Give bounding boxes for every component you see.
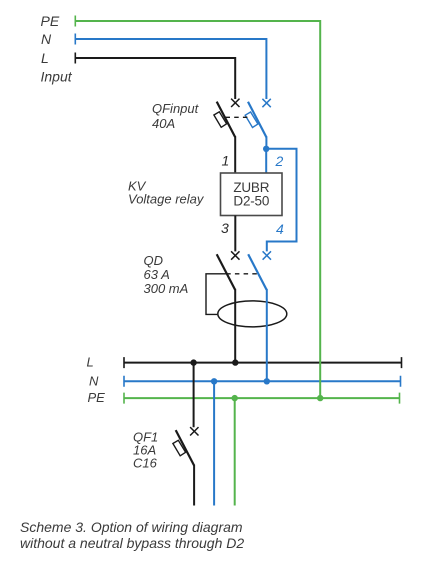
node N bus / QD (264, 378, 270, 384)
node PE bus / input rail (317, 395, 323, 401)
node L bus / QD (232, 359, 238, 365)
RCD QD pole N (248, 251, 271, 289)
wire QD pole N down to N bus (266, 289, 268, 381)
svg-text:C16: C16 (133, 456, 158, 471)
svg-text:N: N (41, 31, 52, 47)
svg-text:QD: QD (144, 253, 164, 268)
bus PE (124, 393, 400, 404)
svg-text:L: L (41, 50, 49, 66)
svg-text:3: 3 (221, 220, 229, 236)
RCD differential transformer ellipse (218, 301, 287, 327)
svg-text:63 A: 63 A (144, 267, 170, 282)
svg-text:QFinput: QFinput (152, 101, 200, 116)
svg-text:Input: Input (41, 69, 73, 85)
wire N junction to relay pin 2 (265, 149, 267, 174)
svg-text:PE: PE (88, 390, 106, 405)
node N bus / tap (211, 378, 217, 384)
svg-text:without a neutral bypass throu: without a neutral bypass through D2 (20, 535, 244, 551)
svg-text:300 mA: 300 mA (144, 281, 189, 296)
breaker QF1 (173, 427, 199, 465)
svg-text:N: N (89, 374, 99, 389)
RCD trip linkage bracket (206, 274, 226, 315)
svg-text:PE: PE (41, 13, 60, 29)
svg-text:4: 4 (276, 221, 284, 237)
mechanical link QFinput (dashed) (226, 116, 249, 118)
wire PE tap down (234, 398, 236, 505)
wire N input rail (75, 34, 266, 100)
svg-text:1: 1 (222, 153, 230, 169)
svg-text:L: L (87, 355, 94, 370)
node L bus / QF1 tap (190, 359, 196, 365)
wire L input rail (75, 53, 235, 100)
wire QD pole L down to L bus (234, 289, 236, 363)
node N junction (263, 146, 269, 152)
breaker QFinput pole L (214, 99, 240, 137)
svg-text:D2-50: D2-50 (233, 193, 269, 208)
wire N pole to junction (265, 136, 267, 149)
svg-text:Scheme 3. Option of wiring dia: Scheme 3. Option of wiring diagram (20, 519, 243, 535)
wire N tap down (213, 381, 215, 505)
svg-text:40A: 40A (152, 116, 175, 131)
wire QF1 output (193, 465, 195, 506)
svg-text:2: 2 (275, 153, 284, 169)
relay KV box ZUBR D2-50 (221, 173, 283, 216)
breaker QFinput pole N (245, 99, 271, 137)
bus L (124, 357, 402, 368)
wire L pole to relay pin 1 (234, 136, 236, 173)
node PE bus / tap (232, 395, 238, 401)
bus N (124, 376, 401, 387)
wire relay pin 3 to QD (234, 216, 236, 252)
wire PE input rail (75, 16, 320, 399)
RCD QD pole L (217, 251, 240, 289)
wire L bus to QF1 (193, 363, 195, 428)
wire N bypass around relay (266, 149, 296, 252)
svg-text:Voltage relay: Voltage relay (128, 192, 205, 207)
mechanical link QD (dashed) (226, 273, 257, 275)
